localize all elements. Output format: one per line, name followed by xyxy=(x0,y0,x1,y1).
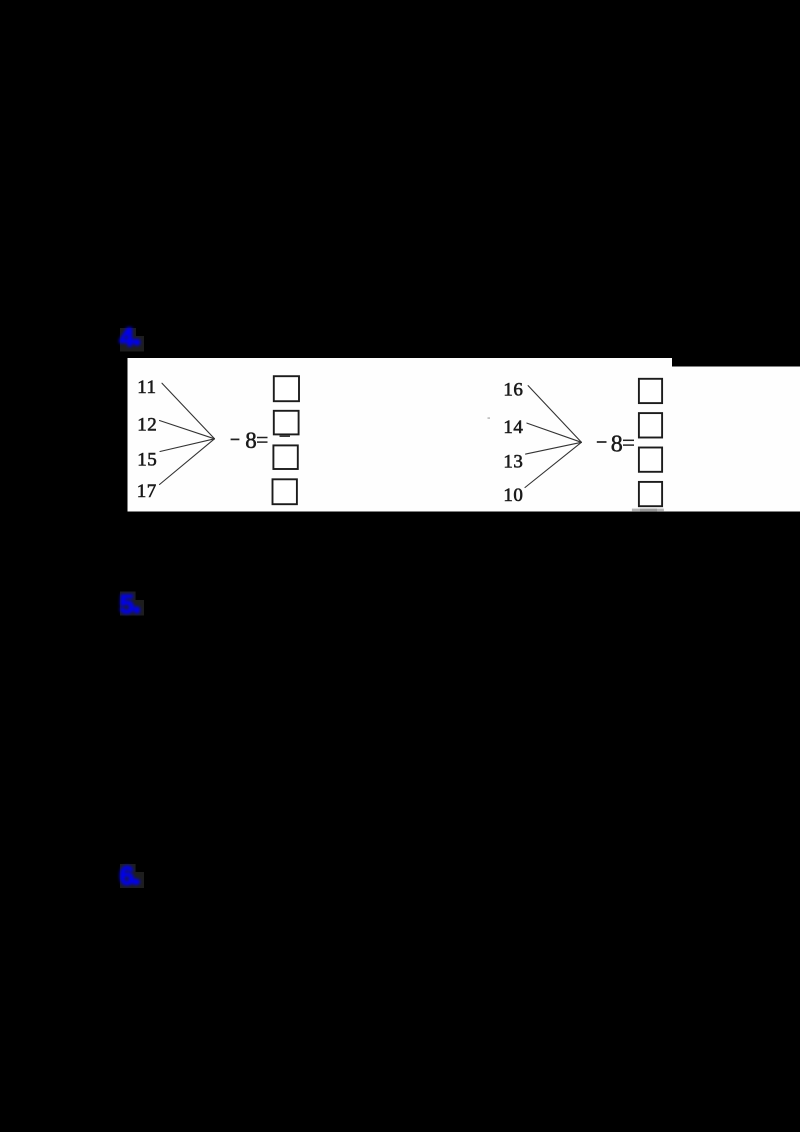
svg-text:4: 4 xyxy=(120,322,135,352)
svg-text:8: 8 xyxy=(245,428,257,453)
svg-text:17: 17 xyxy=(137,481,157,502)
svg-text:13: 13 xyxy=(503,451,523,472)
svg-text:12: 12 xyxy=(137,414,157,435)
svg-text:5: 5 xyxy=(120,589,134,619)
svg-text:16: 16 xyxy=(503,379,523,400)
svg-text:10: 10 xyxy=(503,485,523,506)
svg-text:6: 6 xyxy=(120,861,134,891)
svg-text:8: 8 xyxy=(611,431,623,457)
svg-text:14: 14 xyxy=(503,417,523,438)
svg-text:15: 15 xyxy=(137,449,157,470)
svg-text:11: 11 xyxy=(137,377,156,398)
